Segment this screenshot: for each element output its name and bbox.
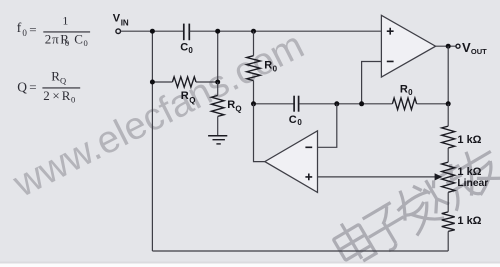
- svg-text:2: 2: [45, 31, 52, 46]
- wire stage2: C0 right plate to R0: [299, 103, 393, 105]
- wire stage2: node6 to C0 left plate: [254, 103, 294, 105]
- node: U1 output / feedback rail: [446, 44, 451, 49]
- svg-text:OUT: OUT: [471, 47, 487, 56]
- svg-text:R: R: [181, 90, 189, 102]
- wire left branch vertical (node1 down to bottom rail): [151, 31, 153, 251]
- svg-text:×: ×: [52, 88, 59, 103]
- opamp U1: [381, 15, 435, 77]
- svg-text:0: 0: [71, 95, 75, 105]
- node: C0 / U2 inverting junction: [334, 101, 339, 106]
- resistor R0 (vertical, first stage): [247, 56, 261, 81]
- svg-text:=: =: [29, 79, 36, 94]
- input terminal VIN: [116, 29, 121, 34]
- formula Q = RQ/(2*R0): [17, 68, 80, 104]
- svg-text:Q: Q: [189, 96, 195, 105]
- svg-text:V: V: [113, 13, 121, 25]
- output terminal VOUT: [456, 44, 460, 48]
- svg-text:1 kΩ: 1 kΩ: [457, 215, 481, 227]
- wire top rail: VIN to C0 left plate: [121, 30, 184, 32]
- wire U2 inverting input: [318, 104, 337, 148]
- wire U1 inverting input: [362, 62, 382, 104]
- resistor R0 (horizontal, stage 2): [392, 98, 416, 110]
- svg-text:C: C: [74, 31, 83, 46]
- svg-text:C: C: [180, 41, 188, 53]
- svg-text:1 kΩ: 1 kΩ: [457, 166, 481, 178]
- node: U2 output / C0 junction: [251, 101, 256, 106]
- svg-text:0: 0: [273, 65, 278, 74]
- label RQ (vertical resistor): [227, 99, 241, 114]
- label C0 (stage 2): [289, 114, 303, 127]
- svg-text:2: 2: [43, 88, 50, 103]
- svg-text:R: R: [264, 59, 272, 71]
- label RQ (horizontal resistor): [181, 90, 196, 105]
- svg-text:f: f: [17, 21, 22, 36]
- wire U2 non-inverting input to potentiometer wiper: [318, 176, 436, 178]
- svg-text:R: R: [227, 99, 235, 111]
- svg-text:IN: IN: [121, 18, 129, 27]
- svg-text:V: V: [462, 40, 471, 55]
- svg-text:1 kΩ: 1 kΩ: [457, 134, 481, 146]
- wire bottom rail: [152, 250, 448, 252]
- node: R0 / VOUT rail junction: [446, 101, 451, 106]
- label R0 (stage 2): [400, 83, 413, 96]
- svg-text:0: 0: [84, 38, 88, 48]
- node: C0/RQ-top junction: [215, 29, 220, 34]
- node: U1 inverting / R0 junction: [359, 101, 364, 106]
- node: left branch / RQ junction: [150, 80, 155, 85]
- capacitor C0 (stage 2): [294, 96, 299, 112]
- resistor 1k (upper): [442, 126, 455, 148]
- resistor 1k (lower): [442, 212, 455, 232]
- svg-text:Q: Q: [17, 79, 27, 94]
- svg-text:R: R: [400, 83, 408, 95]
- svg-text:C: C: [289, 114, 297, 126]
- potentiometer wiper arrow: [435, 173, 443, 180]
- wire RQ to ground: [217, 116, 219, 135]
- label VIN: [113, 13, 129, 28]
- svg-text:Linear: Linear: [457, 178, 488, 189]
- label VOUT: [462, 40, 487, 56]
- potentiometer 1k Linear: [442, 162, 455, 192]
- svg-text:0: 0: [297, 118, 302, 127]
- svg-text:1: 1: [62, 14, 68, 28]
- svg-text:0: 0: [408, 88, 413, 97]
- resistor RQ (horizontal, input): [172, 77, 196, 87]
- wire U2 output up to node6: [254, 104, 265, 162]
- svg-text:π: π: [52, 31, 59, 46]
- node: VIN/C0/left-branch junction: [150, 29, 155, 34]
- svg-text:0: 0: [22, 28, 27, 38]
- svg-text:R: R: [51, 68, 60, 83]
- node: top rail / R0 vertical junction: [251, 29, 256, 34]
- label R0 (vertical resistor): [264, 59, 277, 73]
- wire top rail: C0 right plate to opamp U1 + input: [190, 30, 382, 32]
- svg-text:0: 0: [65, 38, 69, 48]
- resistor RQ (vertical, to ground): [211, 95, 224, 116]
- wire VOUT rail vertical: [447, 46, 449, 104]
- capacitor C0 (input): [184, 24, 190, 41]
- ground: [208, 136, 227, 144]
- node: RQ / RQ-vertical junction: [215, 80, 220, 85]
- formula f0 = 1/(2*pi*R0*C0): [17, 14, 91, 48]
- label C0 (input): [180, 41, 193, 55]
- opamp U2: [265, 131, 318, 193]
- svg-text:Q: Q: [235, 105, 241, 114]
- svg-text:Q: Q: [60, 76, 66, 86]
- label 1 kOhm Linear: [457, 166, 488, 189]
- svg-text:=: =: [29, 22, 36, 37]
- svg-text:R: R: [62, 88, 71, 103]
- svg-text:0: 0: [188, 46, 193, 55]
- wire node2 down to node5: [217, 31, 219, 82]
- wire U1 output to VOUT: [436, 45, 456, 47]
